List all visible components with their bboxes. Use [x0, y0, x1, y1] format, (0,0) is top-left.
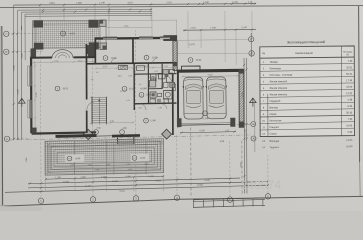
svg-text:12.92: 12.92	[346, 92, 353, 95]
svg-text:1.100: 1.100	[203, 2, 209, 4]
svg-text:15.91: 15.91	[346, 66, 353, 69]
axis line A across plan (dash-dot)	[10, 135, 251, 140]
washer dark dot	[152, 93, 155, 96]
svg-text:3.110: 3.110	[127, 2, 133, 4]
svg-text:44.95: 44.95	[69, 33, 75, 35]
stair arrow	[98, 99, 100, 101]
axis line column 6	[267, 155, 269, 194]
svg-text:1.970: 1.970	[101, 177, 107, 179]
house right wall upper hatched	[173, 41, 177, 71]
bottom terrace extension lines	[44, 177, 46, 192]
title block cells	[193, 199, 265, 201]
bottom terrace hatch (room 14)	[45, 139, 164, 176]
fixture cluster extra blocks	[149, 80, 156, 87]
stair lower dim line	[90, 121, 134, 124]
svg-text:17.44: 17.44	[346, 79, 353, 82]
svg-text:4.420: 4.420	[155, 180, 161, 182]
room label 4	[103, 56, 108, 61]
terrace corner column bottom-left	[34, 43, 44, 50]
garage door line	[182, 123, 231, 126]
kitchen counter room 2	[119, 65, 128, 69]
svg-text:2.0: 2.0	[167, 71, 170, 73]
axis bubble right Б	[251, 122, 256, 127]
svg-text:5.700: 5.700	[36, 93, 38, 98]
svg-text:Гардероб: Гардероб	[269, 100, 280, 103]
terrace corner column top-right	[89, 20, 99, 28]
svg-text:12.28: 12.28	[146, 94, 152, 96]
svg-text:2.1: 2.1	[154, 100, 157, 102]
svg-text:1.640: 1.640	[26, 158, 28, 163]
svg-text:35.43: 35.43	[346, 111, 353, 114]
svg-text:1.61: 1.61	[126, 100, 130, 102]
svg-text:16.80: 16.80	[75, 158, 81, 160]
axis bubble bottom 1	[38, 198, 43, 203]
svg-text:1.00: 1.00	[88, 164, 92, 166]
court top faint line	[106, 19, 177, 22]
axis bubble left А	[4, 136, 9, 141]
axis bubble right А	[251, 136, 256, 141]
bottom terrace step lines	[45, 141, 164, 144]
overhang solid right line	[254, 100, 256, 152]
svg-text:В: В	[5, 50, 7, 54]
door gap in middle block left wall	[86, 100, 88, 111]
divider wall rooms 4/5	[132, 39, 134, 64]
svg-text:2.140: 2.140	[232, 2, 238, 4]
axis bubble bottom 6	[265, 194, 270, 199]
svg-text:1.4: 1.4	[139, 84, 142, 86]
svg-text:Экспликация помещений: Экспликация помещений	[287, 40, 326, 44]
garage room label 9	[203, 111, 208, 116]
svg-text:3.280: 3.280	[128, 169, 133, 171]
axis line row Г	[7, 33, 40, 35]
svg-text:52.21: 52.21	[346, 73, 353, 76]
garage bottom-right column	[230, 118, 235, 127]
svg-text:14.95: 14.95	[346, 139, 353, 142]
window gaps in top wall	[103, 38, 117, 40]
svg-text:1.190: 1.190	[148, 176, 154, 178]
svg-text:Гостиная - столовая: Гостиная - столовая	[269, 74, 292, 77]
svg-text:14.300: 14.300	[85, 186, 92, 188]
room 3 corner stub right	[88, 49, 95, 58]
svg-text:4.38: 4.38	[348, 99, 353, 102]
axis line row В	[7, 50, 44, 52]
svg-text:А: А	[253, 136, 255, 140]
window center lines top wall	[103, 38, 117, 40]
svg-text:-0.750: -0.750	[202, 118, 209, 120]
svg-text:5.700: 5.700	[208, 74, 213, 76]
svg-text:1.140: 1.140	[99, 2, 105, 4]
wall below rooms 4-5	[86, 63, 177, 64]
svg-text:2.55: 2.55	[138, 107, 142, 109]
svg-text:1.400: 1.400	[124, 26, 129, 28]
svg-text:Жилая комната: Жилая комната	[269, 93, 287, 96]
corner column house top-left	[86, 45, 95, 54]
top chain extension verticals	[39, 5, 41, 20]
svg-text:3.510: 3.510	[49, 3, 55, 5]
svg-text:Котельная: Котельная	[269, 119, 282, 122]
room label 8 above garage	[188, 58, 193, 63]
room 3 window bump frames	[28, 66, 31, 86]
table rows	[260, 64, 354, 65]
axis bubble right Г	[249, 37, 254, 42]
sheet frame bottom border	[0, 196, 363, 206]
svg-text:А: А	[6, 137, 8, 141]
svg-text:2.105: 2.105	[245, 129, 247, 134]
garage notch top-left	[182, 66, 201, 70]
svg-text:9.90: 9.90	[348, 105, 353, 108]
terrace inner edge lines	[33, 23, 106, 26]
house right wall lower	[172, 74, 174, 136]
svg-text:1.2: 1.2	[167, 100, 170, 102]
svg-text:2.98: 2.98	[110, 121, 114, 123]
bottom-left paper edge shadow	[0, 206, 42, 211]
svg-text:1.190: 1.190	[70, 164, 75, 166]
room 3 window gaps left wall	[30, 66, 32, 86]
window sill marks top wall	[103, 36, 117, 38]
svg-text:3.110: 3.110	[78, 61, 83, 63]
room 3 bottom wall	[32, 132, 96, 133]
axis leader to bubble В	[177, 52, 249, 55]
svg-text:1.0: 1.0	[90, 97, 92, 99]
svg-text:14.95: 14.95	[140, 158, 146, 160]
room label 2	[139, 92, 144, 97]
axis leader to bubble B lower	[237, 123, 251, 125]
svg-text:34.80: 34.80	[196, 60, 202, 62]
svg-text:7.30: 7.30	[348, 118, 353, 121]
svg-text:5.100: 5.100	[112, 181, 118, 183]
svg-text:4.190: 4.190	[199, 130, 205, 132]
right upper dimension chain	[183, 29, 256, 32]
svg-text:2.110: 2.110	[166, 2, 172, 4]
axis bubble left Г	[4, 31, 9, 36]
room 3 window center lines	[30, 66, 32, 86]
bottom terrace inner verticals	[73, 141, 75, 175]
table column line (numbers)	[267, 94, 269, 137]
veranda label 13	[131, 154, 150, 162]
middle interior wall y104	[134, 102, 177, 105]
middle interior wall y89 short	[148, 88, 162, 90]
axis line column 5	[229, 140, 231, 197]
axis bubble bottom 3	[133, 196, 138, 201]
terrace right pier top	[100, 20, 107, 27]
room label 11	[94, 130, 99, 135]
garage right wall caps	[239, 69, 244, 73]
house top wall (rooms 4-5)	[95, 37, 165, 40]
title block top edge	[193, 198, 265, 200]
extra door arcs middle	[148, 76, 152, 80]
axis bubble bottom 4	[174, 195, 179, 200]
svg-text:№: №	[262, 52, 265, 55]
door arc room4	[111, 58, 117, 64]
right chain second line	[245, 58, 248, 194]
svg-text:Ванная: Ванная	[269, 106, 278, 109]
middle block left wall	[85, 44, 87, 133]
bottom terrace nested step rectangles	[48, 142, 161, 173]
svg-text:2.0: 2.0	[91, 79, 94, 81]
garage left wall	[177, 71, 179, 127]
interior dimension ticks row below top wall	[96, 67, 176, 68]
svg-text:Жилая комната: Жилая комната	[269, 87, 287, 90]
porch steps below wall	[117, 138, 134, 140]
axis leader to bubble Г	[178, 39, 249, 42]
terrace hatch area (room 10)	[33, 20, 101, 48]
extra dark dot fixture	[166, 74, 169, 77]
interior vertical dim line room 3	[34, 62, 36, 128]
left level mark symbol	[18, 98, 26, 107]
svg-text:4.060: 4.060	[80, 177, 86, 179]
court small dim	[106, 26, 152, 28]
terrace room label 10	[61, 31, 66, 36]
sheet frame top border	[0, 5, 363, 7]
top dimension chain line	[14, 4, 256, 5]
axis bubble left В	[4, 49, 9, 54]
room 4 left wall	[94, 39, 96, 64]
svg-text:16.80: 16.80	[346, 145, 353, 148]
room 3 corner stub left	[31, 48, 37, 58]
svg-text:2.110: 2.110	[190, 27, 196, 29]
terrace right pier bottom	[100, 43, 107, 50]
room label 5	[144, 55, 149, 60]
svg-text:1.9: 1.9	[161, 87, 164, 89]
nested corner connector	[13, 5, 15, 30]
svg-text:Терраса: Терраса	[269, 146, 279, 149]
garage bottom-left column	[177, 118, 182, 127]
svg-text:15.00: 15.00	[346, 86, 353, 89]
axis line column 1	[39, 30, 42, 198]
svg-text:1.190: 1.190	[55, 177, 61, 179]
svg-text:12.52: 12.52	[129, 88, 135, 90]
scan left paper edge	[1, 26, 4, 205]
middle interior wall x148	[147, 64, 149, 104]
door arc room5	[153, 58, 159, 64]
garage inner dimension line	[182, 75, 238, 78]
diamond column at room3 bottom wall	[83, 129, 93, 139]
svg-text:3.280: 3.280	[95, 169, 100, 171]
room label 3	[55, 86, 60, 91]
table column line (area)	[340, 46, 342, 136]
svg-text:1.5: 1.5	[96, 72, 99, 74]
axis line column 4	[176, 135, 178, 195]
axis line column 3	[134, 30, 137, 196]
staircase	[92, 96, 106, 98]
svg-text:Тамбур: Тамбур	[269, 61, 278, 64]
svg-text:±0.000: ±0.000	[140, 88, 147, 90]
bottom dimension chains	[45, 176, 164, 179]
garage bottom dimension	[180, 132, 236, 133]
hall bottom wall window thin	[97, 135, 113, 137]
svg-text:1.96: 1.96	[128, 75, 132, 77]
svg-text:98.1: 98.1	[118, 76, 122, 78]
svg-text:50.32: 50.32	[63, 88, 69, 90]
svg-text:1.90: 1.90	[158, 107, 162, 109]
right level mark symbol	[249, 98, 256, 107]
svg-text:Площадь: Площадь	[343, 51, 353, 53]
svg-text:1.800: 1.800	[22, 53, 24, 59]
room 3 inner dimension line	[33, 61, 94, 64]
svg-text:4.190: 4.190	[204, 180, 210, 182]
left vertical dimension lines	[12, 30, 14, 140]
room 3 left wall	[30, 57, 33, 133]
toilet dark seat	[152, 77, 154, 80]
hall bottom wall thick	[56, 134, 97, 138]
svg-text:2.90: 2.90	[348, 131, 353, 134]
door arc hall	[87, 102, 95, 110]
svg-text:-0.770: -0.770	[188, 44, 195, 46]
svg-text:240574: 240574	[241, 178, 282, 192]
roof overhang dashed outline	[190, 128, 192, 197]
garage right wall hatched	[239, 69, 244, 127]
extension lines top right	[108, 11, 110, 36]
hall bottom wall right segment	[112, 134, 140, 137]
svg-text:1.560: 1.560	[76, 3, 82, 5]
terrace corner column top-left	[34, 20, 44, 27]
svg-text:1.05: 1.05	[225, 130, 229, 132]
court right faint vertical	[176, 20, 178, 35]
room 3 corner column bottom-left	[32, 128, 37, 134]
svg-text:Наименование: Наименование	[295, 51, 314, 55]
room 3 top wall right segment	[74, 56, 96, 58]
room label 6	[144, 118, 149, 123]
axis line column 2	[91, 30, 94, 197]
svg-text:7.40: 7.40	[348, 60, 353, 63]
svg-text:1.52: 1.52	[154, 71, 158, 73]
room 3 window outer sills	[28, 66, 30, 86]
table outer border	[260, 46, 355, 137]
axis bubble right В	[249, 51, 254, 56]
house right wall upper caps	[173, 62, 177, 66]
svg-text:Жилая комната: Жилая комната	[269, 80, 287, 83]
svg-text:9.160: 9.160	[197, 185, 203, 187]
svg-text:5.080: 5.080	[14, 65, 16, 71]
svg-text:Прихожая: Прихожая	[269, 67, 281, 70]
terrace nested dimension lines	[18, 8, 152, 11]
svg-text:Сауна: Сауна	[269, 132, 277, 135]
svg-text:1.00: 1.00	[126, 164, 130, 166]
extra sink fixture	[158, 93, 162, 96]
svg-text:1.700: 1.700	[54, 61, 59, 63]
svg-text:12.80: 12.80	[150, 120, 156, 122]
svg-text:Санузел: Санузел	[269, 126, 279, 129]
axis bubble bottom 5	[227, 197, 232, 202]
middle interior wall y74	[134, 73, 177, 76]
svg-text:5.140: 5.140	[63, 181, 69, 183]
svg-text:1.100: 1.100	[210, 27, 216, 29]
axis line row А	[9, 137, 30, 139]
right vertical dimension chain upper	[250, 33, 252, 57]
curved steps bay (fan arcs)	[52, 50, 73, 58]
terrace corner column bottom-right	[89, 42, 99, 49]
extra cabinet	[173, 84, 176, 91]
car 1	[183, 77, 204, 119]
svg-text:2.4: 2.4	[120, 91, 123, 93]
svg-text:4.060: 4.060	[125, 176, 131, 178]
middle block interior wall vertical x134	[133, 64, 135, 110]
interior wall x162	[161, 64, 163, 89]
sheet frame right border	[359, 6, 360, 162]
svg-text:Гараж: Гараж	[269, 113, 276, 116]
room label 7	[120, 130, 125, 135]
svg-text:15.00: 15.00	[346, 124, 353, 127]
small porch walls bottom-middle	[116, 138, 118, 145]
door arc room6	[140, 104, 146, 110]
axis bubble bottom 2	[90, 197, 95, 202]
svg-text:3.970: 3.970	[103, 66, 108, 68]
right vertical dimension chain lower	[243, 58, 246, 194]
diamond column at porch right	[162, 129, 172, 139]
car 2	[206, 77, 227, 119]
garage top wall	[177, 69, 244, 73]
room 3 top wall left segment	[31, 57, 52, 59]
room label 1 and level	[122, 86, 127, 91]
bathroom fixtures block	[151, 74, 157, 82]
svg-text:Веранда: Веранда	[269, 140, 279, 143]
svg-text:31.10: 31.10	[119, 191, 125, 193]
stove burners room 2	[120, 66, 123, 69]
svg-text:90: 90	[123, 66, 125, 68]
svg-text:2.140: 2.140	[241, 27, 247, 29]
svg-text:9.940: 9.940	[18, 89, 20, 95]
bottom terrace label 14	[66, 154, 85, 162]
table header bottom line	[260, 57, 354, 58]
